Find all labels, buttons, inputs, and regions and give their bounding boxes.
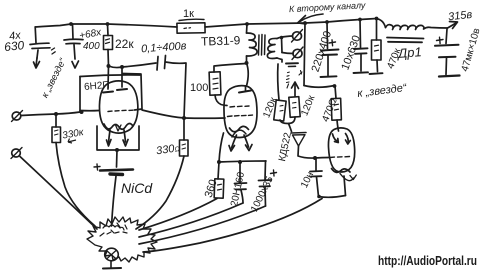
resistor R 470 grid/anode xyxy=(335,86,336,99)
svg-text:330к: 330к xyxy=(61,127,85,142)
wire 120k bottoms join xyxy=(280,117,295,124)
svg-text:400: 400 xyxy=(83,41,100,52)
star ground scribble xyxy=(87,217,157,262)
capacitor C1 4x630 xyxy=(34,27,37,43)
wire top rail left xyxy=(35,24,177,27)
heater arrows V1 xyxy=(109,130,111,143)
grid dashes V2 row2 xyxy=(228,115,253,116)
transformer T1 core xyxy=(259,35,266,56)
star ground terminal circle-X xyxy=(105,248,119,261)
tube V2 envelope xyxy=(224,86,257,138)
heater box V1 xyxy=(97,126,139,150)
resistor R 1k feedback xyxy=(177,23,205,33)
wire battery to star xyxy=(112,176,117,226)
wire divider tap to diode xyxy=(289,124,292,132)
svg-text:NiCd: NiCd xyxy=(121,180,153,196)
arrow to 315V xyxy=(448,23,457,28)
cathode arc V2 xyxy=(230,126,249,131)
svg-text:КД522: КД522 xyxy=(277,131,294,162)
svg-text:к „звезде“: к „звезде“ xyxy=(357,82,409,100)
svg-text:10н: 10н xyxy=(299,170,316,190)
wire grid node to V3 xyxy=(315,157,329,160)
svg-text:6Н2П: 6Н2П xyxy=(84,80,110,93)
diode VD1 KD522 xyxy=(291,132,306,135)
wire R330 to star xyxy=(136,156,184,229)
resistor R 360 xyxy=(218,162,219,179)
svg-text:360: 360 xyxy=(203,178,220,199)
grid dashes V1 xyxy=(108,110,133,111)
wire J1 to grid xyxy=(21,112,80,116)
wire corner to R470 top xyxy=(304,86,335,88)
transformer T1 secondary winding xyxy=(267,38,277,58)
wire R330k to star xyxy=(56,143,95,227)
capacitor C 10x630 xyxy=(359,20,362,48)
junction R22k / anode / coupling xyxy=(107,64,111,68)
choke L1 core xyxy=(387,38,424,43)
wire C1000x35 to star xyxy=(139,206,266,244)
junction heater box bottom xyxy=(115,148,119,152)
svg-text:315в: 315в xyxy=(448,9,473,23)
wire V2 bottom-left to cathode rail xyxy=(219,133,224,162)
ground bar PSU xyxy=(439,76,460,77)
capacitor C 20x160 xyxy=(239,162,241,183)
wire to star long xyxy=(143,199,322,253)
grid dashes V2 row1 xyxy=(230,106,249,107)
capacitor C 220x400 xyxy=(326,22,329,49)
battery NiCd plates xyxy=(100,170,133,171)
svg-text:100: 100 xyxy=(190,82,208,94)
svg-text:120к: 120к xyxy=(299,93,317,117)
svg-text:630: 630 xyxy=(3,38,25,54)
cathode wavy V3 xyxy=(332,169,351,173)
wire V1 right grid loop xyxy=(123,74,142,111)
junction rail-transformer primary xyxy=(245,22,249,26)
junction rail-R22k xyxy=(106,22,110,26)
svg-text:1к: 1к xyxy=(183,8,194,20)
svg-text:47мк×10в: 47мк×10в xyxy=(460,27,480,73)
wire primary bottom xyxy=(246,56,248,63)
tube V1 6N2P envelope xyxy=(99,81,137,133)
wire cathode V3 down xyxy=(344,176,346,196)
wire V1 cathode node to R330 xyxy=(142,110,184,118)
wire node to coupling cap xyxy=(122,63,156,67)
svg-text:http://AudioPortal.ru: http://AudioPortal.ru xyxy=(378,253,477,268)
wire B+ corner down xyxy=(304,23,305,86)
tiny note marks near arrow xyxy=(287,72,290,88)
wire diode to grid node xyxy=(298,146,315,158)
PSU top rail xyxy=(305,19,386,28)
plus C1000x35 xyxy=(271,170,277,176)
cathode rail V2 xyxy=(219,161,266,162)
arrow К второму каналу xyxy=(300,14,323,22)
chassis ground below jacks xyxy=(286,62,298,64)
svg-text:Др1: Др1 xyxy=(396,44,423,61)
arrow under 330k xyxy=(68,139,76,144)
choke L1 Dr1 winding xyxy=(386,25,448,30)
svg-text:22к: 22к xyxy=(115,37,134,51)
junction B+ corner xyxy=(303,21,307,25)
svg-text:ТВ31-9: ТВ31-9 xyxy=(201,33,241,48)
capacitor C 10n xyxy=(315,158,317,171)
svg-text:220х400: 220х400 xyxy=(310,30,334,74)
wire C20x160 to star xyxy=(139,203,243,237)
wire grid-top loop over V1 xyxy=(80,75,140,77)
wire R360 to star xyxy=(139,199,217,231)
capacitor C 1000x35 xyxy=(264,161,267,180)
svg-text:330Ω: 330Ω xyxy=(155,142,181,157)
anode lead right V1 xyxy=(121,67,123,87)
wire secondary to jacks xyxy=(277,36,293,39)
feedback divider: wire left 120k up xyxy=(278,64,279,100)
resistor R 470k bleeder xyxy=(376,19,378,41)
hooks inside V3 top xyxy=(333,134,339,142)
svg-text:к „звезде“: к „звезде“ xyxy=(40,56,70,100)
wire top rail right of R 1k xyxy=(205,23,305,27)
svg-text:120к: 120к xyxy=(261,95,279,119)
wire V1 left box xyxy=(79,77,81,112)
wire anode V2 xyxy=(247,63,249,86)
resistor R 120k left xyxy=(274,100,286,121)
tick marks near C1 xyxy=(52,48,56,54)
arrow to star from C1 xyxy=(36,58,37,66)
wire 10n + cathode join xyxy=(319,196,346,198)
junction 10n-cathode xyxy=(317,195,321,199)
junction primary bottom / anode V2 xyxy=(245,61,249,65)
wire junction to anode-right node xyxy=(109,66,123,68)
svg-text:0,1÷400в: 0,1÷400в xyxy=(141,40,187,55)
junction rail-C2 xyxy=(69,22,73,26)
input jack J1 xyxy=(12,112,21,120)
resistor R 330 cathode xyxy=(183,118,185,140)
ground stem and bar xyxy=(110,261,112,268)
resistor R 100 screen xyxy=(214,64,247,73)
capacitor C3 0,1x400 xyxy=(157,57,158,71)
transformer T1 primary winding xyxy=(246,24,249,33)
output jack JO2 xyxy=(293,49,302,57)
battery plus sign xyxy=(94,164,100,170)
resistor R 120k right xyxy=(289,97,300,118)
anode lead left V1 xyxy=(107,66,110,89)
tube V3 envelope xyxy=(328,128,354,172)
capacitor C2 68x400 electrolytic xyxy=(72,24,75,39)
svg-text:+68х: +68х xyxy=(78,27,103,42)
wire J2 to star xyxy=(20,157,97,230)
feedback arrow up xyxy=(294,84,296,96)
grid dashes V3 xyxy=(330,157,350,158)
cathode arrows V2 xyxy=(232,135,237,148)
wire to battery xyxy=(116,150,119,167)
output jack JO1 xyxy=(293,32,302,40)
resistor R 22k xyxy=(107,24,110,36)
arrow to star from C2 xyxy=(72,61,79,68)
svg-text:К второму каналу: К второму каналу xyxy=(289,0,366,14)
wire C3 to grid of V2 xyxy=(166,62,187,118)
capacitor C 68mk output xyxy=(446,29,447,44)
input jack J2 xyxy=(12,149,21,157)
cathode wavy V1 xyxy=(104,124,133,130)
cathode curl arrow V3 xyxy=(340,174,354,181)
resistor R 330k grid xyxy=(55,114,57,127)
wire grid line to V2 xyxy=(184,117,225,119)
